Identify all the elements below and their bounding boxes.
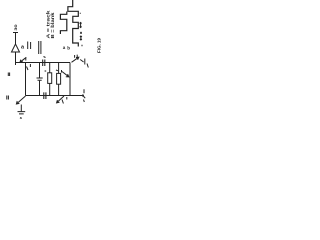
label 33 left margin — [8, 73, 9, 77]
tick below bottom bus — [66, 97, 68, 100]
svg-text:b: b — [67, 46, 70, 51]
label b at switch S3 — [87, 64, 88, 68]
capacitor C3 plates in series on bottom bus — [44, 92, 46, 99]
wire from op-amp base down to bus — [15, 52, 17, 65]
svg-text:c: c — [45, 69, 47, 73]
interval marker B (double arrow) — [80, 36, 82, 40]
svg-text:FIG. 19: FIG. 19 — [96, 38, 101, 53]
lead from box Z2 to bottom bus — [58, 84, 60, 95]
bottom bus wire — [26, 95, 83, 97]
top bus wire — [16, 62, 71, 64]
label above C1 — [44, 57, 46, 58]
output terminal dot at bottom bus end — [82, 94, 84, 96]
switch S3 blade top right — [72, 57, 79, 62]
switch S4 contact wire — [20, 105, 22, 112]
switch S2 contact tick — [61, 70, 63, 73]
right drop wire from top bus to bottom bus — [69, 63, 71, 96]
capacitor C2 plates (horizontal) — [37, 78, 43, 80]
shunt branch wire at x39.5 — [39, 63, 41, 78]
waveform B (left square wave) — [60, 12, 66, 35]
wire from terminal to op-amp apex — [15, 33, 17, 45]
svg-text:B = blank: B = blank — [50, 12, 55, 39]
waveform A (right square wave) — [68, 0, 78, 47]
label 34 left of bottom switch — [7, 96, 9, 100]
lead from bus to box Z1 — [49, 63, 51, 73]
switch S3 contact stub — [84, 59, 86, 65]
capacitor C4 to ground plates — [18, 112, 26, 114]
switch S2 blade with arrow onto right drop wire — [62, 72, 69, 77]
tick above output terminal — [83, 89, 85, 93]
label 31 (rotated ticks) — [28, 42, 31, 50]
wire C2 to bottom bus — [39, 81, 41, 96]
switch S3 arrow to contact — [80, 60, 83, 63]
label b below switch S1 — [27, 64, 31, 70]
op-amp A1 (triangle pointing up) — [12, 44, 20, 52]
switch S1 blade and arrow — [20, 57, 26, 62]
lead from bus to box Z2 — [58, 63, 60, 74]
impedance box Z2 — [57, 73, 61, 84]
label under switch S5 — [62, 100, 63, 104]
label above box Z2 — [56, 69, 58, 72]
switch S4 blade bottom left — [16, 96, 25, 104]
label 32 (rotated ticks) — [39, 41, 41, 54]
terminal bar at amplifier output — [13, 32, 18, 34]
impedance box Z1 — [48, 73, 52, 84]
label 35 above switch S3 — [75, 55, 78, 58]
tick dots near waveform — [80, 13, 82, 46]
wire branch at x25.5 down to bottom bus — [25, 63, 27, 96]
switch S5 blade bottom middle — [57, 96, 64, 103]
svg-text:30: 30 — [14, 24, 18, 31]
capacitor C1 plates in series on top bus — [43, 60, 45, 67]
lead from box Z1 to bottom bus — [49, 83, 51, 95]
switch S1 contact stub — [25, 58, 27, 61]
output terminal tail — [83, 96, 85, 99]
interval marker A (double arrow) — [80, 23, 82, 28]
tick below output terminal — [83, 100, 86, 103]
